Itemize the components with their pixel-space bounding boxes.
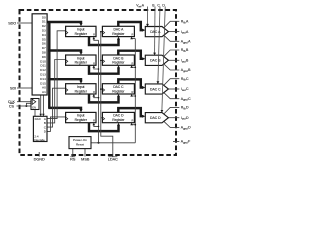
IOUT C output wire <box>167 88 179 90</box>
bus DAC D register to DAC D <box>118 108 143 116</box>
svg-text:D1: D1 <box>42 20 46 24</box>
svg-text:D6: D6 <box>42 42 46 46</box>
svg-text:R: R <box>132 61 134 65</box>
LDAC tap row D <box>101 117 103 119</box>
svg-text:D: D <box>188 126 191 130</box>
svg-text:LDAC: LDAC <box>108 157 118 161</box>
svg-text:D10: D10 <box>40 59 46 63</box>
VREF B line <box>154 7 156 54</box>
LDAC wire <box>101 32 113 157</box>
svg-text:SDO: SDO <box>8 21 16 25</box>
svg-text:D9: D9 <box>42 55 46 59</box>
A0 A1 lines to decoder <box>40 95 42 114</box>
bus DAC C register to DAC C <box>118 79 143 87</box>
svg-text:DGND: DGND <box>34 158 45 162</box>
reset tap input register D <box>94 125 99 126</box>
svg-text:EN: EN <box>32 106 36 110</box>
RFB D output wire <box>164 107 180 114</box>
RFB B output wire <box>164 50 180 57</box>
svg-text:DAC: DAC <box>35 117 42 121</box>
reset tap input register B <box>94 68 99 69</box>
svg-text:A: A <box>186 30 189 34</box>
DAC A register <box>102 26 134 36</box>
svg-text:R: R <box>93 119 95 123</box>
reset tap DAC register C <box>132 95 136 97</box>
pin CLK wire <box>17 101 31 103</box>
svg-text:F: F <box>188 140 190 144</box>
DAC B <box>145 55 168 65</box>
RFB A output wire <box>164 21 180 28</box>
power-on reset <box>69 137 91 149</box>
bus input register A to DAC A register <box>89 37 119 45</box>
reset tap DAC register D <box>132 124 136 126</box>
pin CS wire <box>17 105 32 107</box>
svg-text:D: D <box>186 106 189 110</box>
svg-text:RS: RS <box>70 157 76 161</box>
buffer output to decoder <box>34 110 36 117</box>
input register A <box>66 26 96 36</box>
VREF A line <box>147 7 149 25</box>
LDAC tap row A <box>101 31 103 33</box>
IOUT D output wire <box>167 117 179 119</box>
svg-text:R: R <box>93 90 95 94</box>
DAC B register <box>102 55 134 65</box>
DAC C register <box>102 84 134 94</box>
bus input register B to DAC B register <box>89 65 119 73</box>
svg-text:D: D <box>186 116 189 120</box>
svg-text:D4: D4 <box>42 33 46 37</box>
svg-text:CS: CS <box>9 104 15 108</box>
clock buffer with EN <box>31 99 39 110</box>
LDAC tap row C <box>101 88 103 90</box>
select line DAC B <box>47 60 66 123</box>
svg-text:R: R <box>132 33 134 37</box>
LDAC tap row B <box>101 59 103 61</box>
svg-text:Register: Register <box>75 32 88 36</box>
select line DAC A <box>47 31 66 119</box>
VREF C line <box>158 7 160 82</box>
svg-text:DAC B: DAC B <box>150 59 161 63</box>
reset distribution from power-on reset <box>91 142 135 144</box>
svg-text:DAC C: DAC C <box>150 87 161 91</box>
svg-text:R: R <box>132 90 134 94</box>
svg-text:C: C <box>186 87 189 91</box>
svg-text:A0: A0 <box>42 86 46 90</box>
svg-text:C: C <box>186 77 189 81</box>
RS wire <box>72 149 74 157</box>
DAC D <box>145 113 168 123</box>
svg-text:R: R <box>93 61 95 65</box>
AGND B output wire <box>164 64 180 70</box>
svg-text:D13: D13 <box>40 73 46 77</box>
DGND stub <box>38 152 40 157</box>
bus input register D to DAC D register <box>89 123 119 131</box>
input register C <box>66 84 96 94</box>
svg-text:A: A <box>142 4 145 8</box>
RFB C output wire <box>164 79 180 86</box>
select line DAC D <box>47 117 66 131</box>
svg-text:D12: D12 <box>40 68 46 72</box>
svg-text:D5: D5 <box>42 37 46 41</box>
VREF D line <box>162 7 165 111</box>
svg-text:A: A <box>188 40 191 44</box>
AGND D output wire <box>164 121 180 127</box>
DAC C <box>145 84 168 94</box>
svg-text:D15: D15 <box>40 81 46 85</box>
bus DAC A register to DAC A <box>118 22 143 30</box>
2:4 decoder <box>33 116 47 142</box>
svg-text:R: R <box>132 119 134 123</box>
svg-text:D14: D14 <box>40 77 46 81</box>
svg-text:B: B <box>186 59 189 63</box>
data bus from shift register <box>47 22 81 24</box>
svg-text:Register: Register <box>112 118 125 122</box>
reset tap DAC register B <box>132 66 136 68</box>
data bus riser <box>48 22 50 108</box>
svg-text:D8: D8 <box>42 51 46 55</box>
bus DAC B register to DAC B <box>118 51 143 59</box>
svg-text:Register: Register <box>112 89 125 93</box>
IOUT A output wire <box>167 31 179 33</box>
bus input register C to DAC C register <box>89 94 119 102</box>
DAC A <box>145 27 168 37</box>
input register D <box>66 112 96 122</box>
shift register D0-D15 A0 A1 <box>32 14 47 95</box>
svg-text:B: B <box>188 68 191 72</box>
svg-text:D7: D7 <box>42 46 46 50</box>
svg-text:DAC D: DAC D <box>150 116 161 120</box>
svg-text:A1: A1 <box>42 90 46 94</box>
svg-text:Register: Register <box>112 32 125 36</box>
reset tap input register A <box>94 39 99 40</box>
svg-text:C: C <box>188 97 191 101</box>
AGND A output wire <box>164 35 180 41</box>
reset tap DAC register A <box>132 38 136 40</box>
AGND C output wire <box>164 93 180 99</box>
svg-text:B: B <box>186 48 189 52</box>
pin SDI wire <box>17 87 32 89</box>
svg-text:D0: D0 <box>42 15 46 19</box>
svg-text:A: A <box>186 20 189 24</box>
reset riser to input registers <box>98 40 100 143</box>
reset riser to DAC registers <box>134 39 136 143</box>
svg-text:Register: Register <box>75 89 88 93</box>
svg-text:SDI: SDI <box>10 86 16 90</box>
svg-text:D2: D2 <box>42 24 46 28</box>
input register B <box>66 55 96 65</box>
svg-text:Register: Register <box>75 61 88 65</box>
IOUT B output wire <box>167 59 179 61</box>
MSB wire <box>84 149 86 157</box>
svg-text:D3: D3 <box>42 29 46 33</box>
data bus branch row C <box>48 79 81 81</box>
data bus branch row B <box>48 51 81 53</box>
reset tap input register C <box>94 96 99 97</box>
AGNDF stub <box>173 141 179 143</box>
svg-text:Decode: Decode <box>34 138 45 142</box>
svg-text:Reset: Reset <box>76 142 84 146</box>
DAC D register <box>102 112 134 122</box>
select line DAC C <box>47 88 66 127</box>
svg-text:R: R <box>93 33 95 37</box>
svg-text:D11: D11 <box>40 64 46 68</box>
svg-text:Register: Register <box>75 118 88 122</box>
pin SDO wire <box>17 22 32 24</box>
chip boundary dashed border <box>20 10 177 155</box>
svg-text:MSB: MSB <box>81 157 90 161</box>
data bus branch row D <box>48 108 81 110</box>
svg-text:Register: Register <box>112 61 125 65</box>
